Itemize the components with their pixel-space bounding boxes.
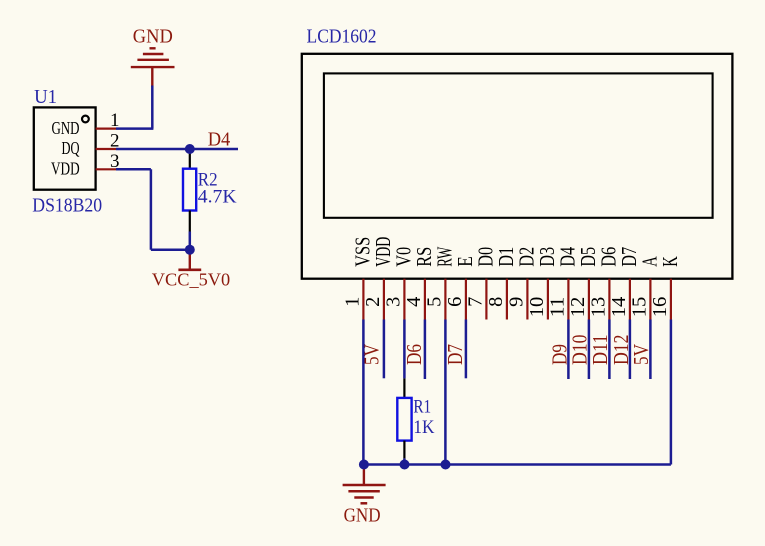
svg-text:7: 7 bbox=[465, 297, 487, 307]
svg-text:U1: U1 bbox=[34, 86, 57, 108]
svg-text:GND: GND bbox=[52, 118, 80, 138]
svg-text:6: 6 bbox=[444, 297, 466, 307]
svg-text:D7: D7 bbox=[443, 344, 467, 365]
svg-text:GND: GND bbox=[344, 504, 381, 526]
svg-text:10: 10 bbox=[526, 297, 548, 318]
svg-text:13: 13 bbox=[588, 297, 610, 318]
svg-text:3: 3 bbox=[383, 297, 405, 307]
svg-text:4.7K: 4.7K bbox=[198, 186, 237, 207]
svg-text:16: 16 bbox=[649, 297, 671, 318]
svg-text:DQ: DQ bbox=[62, 138, 80, 158]
svg-text:GND: GND bbox=[133, 26, 173, 48]
svg-text:D6: D6 bbox=[402, 344, 426, 365]
svg-text:VDD: VDD bbox=[51, 159, 80, 179]
svg-text:5: 5 bbox=[424, 297, 446, 307]
svg-text:1K: 1K bbox=[413, 417, 434, 438]
svg-text:8: 8 bbox=[485, 297, 507, 307]
svg-text:5V: 5V bbox=[629, 344, 653, 365]
svg-text:4: 4 bbox=[403, 297, 425, 307]
svg-text:D4: D4 bbox=[208, 128, 231, 150]
svg-text:1: 1 bbox=[342, 297, 364, 307]
svg-text:11: 11 bbox=[547, 297, 569, 318]
svg-text:9: 9 bbox=[506, 297, 528, 307]
svg-text:12: 12 bbox=[567, 297, 589, 318]
svg-text:2: 2 bbox=[362, 297, 384, 307]
svg-text:VCC_5V0: VCC_5V0 bbox=[152, 270, 231, 290]
svg-text:DS18B20: DS18B20 bbox=[32, 194, 102, 216]
svg-text:K: K bbox=[658, 256, 682, 267]
svg-text:15: 15 bbox=[629, 297, 651, 318]
svg-text:LCD1602: LCD1602 bbox=[307, 26, 377, 48]
svg-text:5V: 5V bbox=[359, 344, 383, 365]
svg-text:R1: R1 bbox=[413, 396, 431, 417]
svg-text:14: 14 bbox=[608, 297, 630, 318]
